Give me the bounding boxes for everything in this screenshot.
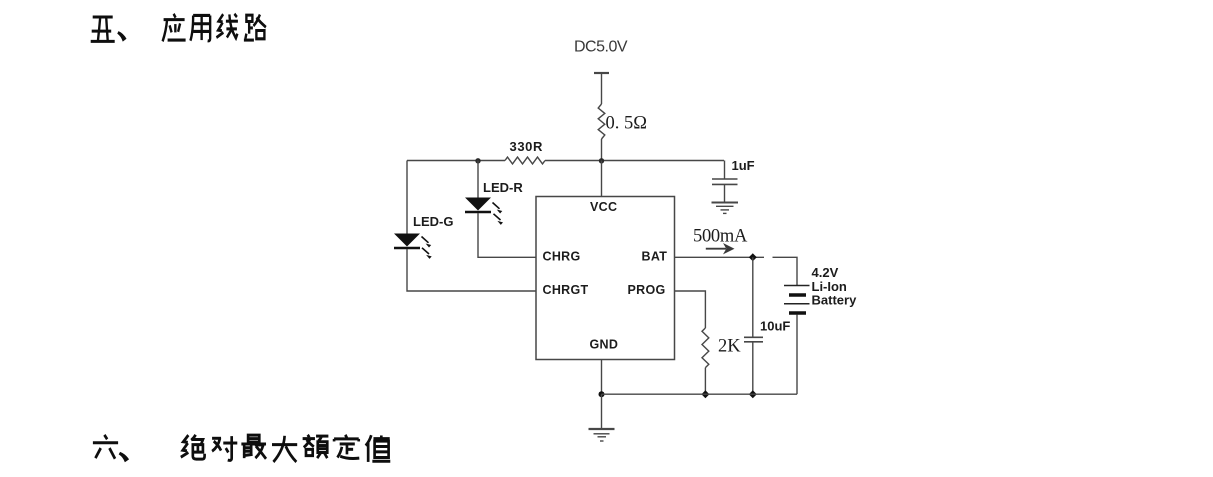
svg-text:500mA: 500mA <box>693 227 748 247</box>
pin label VCC <box>590 200 617 214</box>
node junction dot at 330R/LED-R <box>475 158 480 163</box>
svg-text:LED-G: LED-G <box>413 214 453 229</box>
label Li-Ion <box>812 279 847 294</box>
wire from R1 to main rail <box>601 139 603 161</box>
battery BT1 plates <box>784 286 810 314</box>
heading text char 大 <box>272 436 297 462</box>
capacitor C2 10uF <box>744 337 763 394</box>
wire from terminal to R1 <box>601 73 603 104</box>
LED D1 emission arrows <box>493 203 504 225</box>
LED D1 LED-R symbol <box>465 198 491 213</box>
wire battery negative to bottom rail <box>796 315 798 395</box>
wire left rail down to LED-G <box>406 161 408 234</box>
wire node down to C2 <box>752 257 754 337</box>
node diamond at C2 bottom <box>749 390 757 398</box>
heading text char 、 <box>119 452 129 462</box>
resistor R3 2K zigzag <box>702 328 709 368</box>
LED D2 emission arrows <box>422 237 432 259</box>
heading text char 线 <box>216 14 238 38</box>
label LED-R <box>483 180 523 195</box>
wire VCC pin <box>601 161 603 197</box>
heading text char 值 <box>366 435 391 462</box>
node diamond at R3 bottom <box>701 390 709 398</box>
svg-text:PROG: PROG <box>628 283 666 297</box>
current arrow <box>706 243 735 254</box>
svg-text:BAT: BAT <box>642 250 668 264</box>
svg-text:VCC: VCC <box>590 200 617 214</box>
node diamond at BAT junction <box>749 253 757 261</box>
svg-text:GND: GND <box>590 338 619 352</box>
svg-text:10uF: 10uF <box>760 319 790 334</box>
wire LED-R anode <box>477 161 479 198</box>
wire R3 to bottom rail <box>704 368 706 395</box>
svg-text:2K: 2K <box>718 337 741 357</box>
capacitor C1 1uF <box>712 179 738 202</box>
wire main top rail right segment <box>545 160 724 162</box>
wire PROG to R3 <box>675 291 706 328</box>
value label 0.5ohm <box>606 114 648 134</box>
heading text char 、 <box>117 31 126 42</box>
wire LED-G cathode to CHRGT <box>407 249 536 291</box>
wire bottom rail <box>602 393 798 395</box>
label Battery <box>812 293 858 308</box>
pin label CHRGT <box>543 283 589 297</box>
LED D2 LED-G symbol <box>394 234 420 249</box>
wire GND to ground symbol <box>601 394 603 428</box>
wire main top rail left segment <box>407 160 505 162</box>
heading text char 五 <box>91 17 115 41</box>
heading text char 额 <box>303 435 329 458</box>
resistor R1 0.5ohm zigzag <box>598 104 605 139</box>
wire DC5.0V terminal bar <box>594 72 609 74</box>
pin label CHRG <box>543 250 581 264</box>
value label 2K <box>718 337 741 357</box>
label LED-G <box>413 214 453 229</box>
label 1uF <box>732 158 755 173</box>
svg-text:0. 5Ω: 0. 5Ω <box>606 114 648 134</box>
resistor R2 330R zigzag <box>505 157 545 164</box>
svg-text:CHRGT: CHRGT <box>543 283 589 297</box>
heading text char 定 <box>334 435 359 459</box>
wire GND pin to rail <box>601 360 603 395</box>
node junction dot at VCC rail <box>599 158 604 163</box>
wire to battery <box>773 257 798 285</box>
pin label BAT <box>642 250 668 264</box>
pin label PROG <box>628 283 666 297</box>
heading text char 绝 <box>181 435 205 459</box>
svg-text:LED-R: LED-R <box>483 180 523 195</box>
svg-text:DC5.0V: DC5.0V <box>574 39 628 56</box>
pin label GND <box>590 338 619 352</box>
label 500mA <box>693 227 748 247</box>
heading text char 最 <box>241 435 266 459</box>
heading text char 对 <box>212 436 237 460</box>
value label 330R <box>510 139 543 154</box>
heading text char 路 <box>244 14 266 40</box>
svg-text:330R: 330R <box>510 139 543 154</box>
heading text char 六 <box>93 435 118 459</box>
node DC5.0V label <box>574 39 628 56</box>
node dot at GND junction <box>599 391 605 397</box>
op-amp U1 chip body <box>536 197 675 360</box>
svg-text:Battery: Battery <box>812 293 858 308</box>
heading text char 用 <box>190 15 210 40</box>
ground main <box>589 429 615 441</box>
ground under C1 <box>712 203 739 214</box>
svg-text:CHRG: CHRG <box>543 250 581 264</box>
wire LED-R cathode to CHRG <box>478 213 536 257</box>
label 4.2V <box>812 265 839 280</box>
wire rail to C1 <box>724 161 726 180</box>
svg-text:4.2V: 4.2V <box>812 265 839 280</box>
svg-text:1uF: 1uF <box>732 158 755 173</box>
heading text char 应 <box>163 14 186 42</box>
label 10uF <box>760 319 790 334</box>
wire BAT to node <box>675 256 765 258</box>
